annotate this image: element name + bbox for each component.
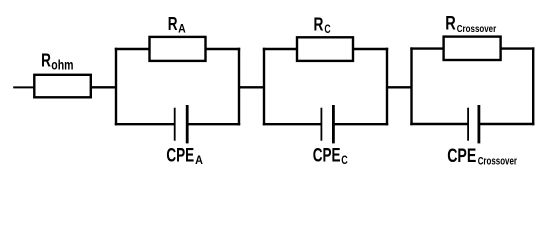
capacitor CPEA right plate [186,105,189,143]
svg-text:A: A [178,24,186,36]
wire loop1 right vertical [238,49,240,124]
svg-text:R: R [314,14,324,34]
capacitor CPECrossover right plate [478,105,481,143]
capacitor CPECrossover left plate [467,108,469,141]
svg-text:Crossover: Crossover [478,155,518,167]
wire loop1 left vertical [115,49,117,124]
wire loop3 bottom rail left [412,123,468,125]
svg-text:A: A [195,153,203,167]
wire loop2 top rail left [264,48,298,50]
wire loop1 top rail left [116,48,150,50]
svg-text:R: R [168,14,178,34]
wire loop2 top rail right [353,48,388,50]
wire loop1 bottom rail right [188,123,239,125]
svg-text:CPE: CPE [166,145,194,166]
wire loop3 right vertical [532,49,534,124]
wire loop3 top rail left [412,47,445,49]
wire loop3 bottom rail right [480,123,533,125]
svg-text:R: R [41,51,51,71]
resistor RC [297,37,353,61]
capacitor CPEC left plate [321,108,323,141]
capacitor CPEC right plate [332,105,335,143]
svg-text:Crossover: Crossover [457,23,496,35]
wire loop2 bottom rail left [264,123,321,125]
wire loop3 left vertical [410,49,412,124]
svg-text:C: C [324,24,330,36]
wire loop2 to loop3 [387,86,412,88]
wire Rohm to loop1 [91,86,116,88]
wire loop2 bottom rail right [335,123,387,125]
wire input stub [13,86,34,88]
svg-text:CPE: CPE [313,145,341,166]
resistor RA [150,37,206,61]
svg-text:R: R [445,13,456,35]
svg-text:C: C [341,153,348,167]
wire loop2 left vertical [263,49,265,124]
resistor Rohm [34,75,91,98]
wire loop1 to loop2 [239,86,264,88]
wire loop3 top rail right [500,47,533,49]
wire loop1 bottom rail left [116,123,174,125]
wire loop1 top rail right [205,48,239,50]
svg-text:ohm: ohm [51,58,73,73]
resistor RCrossover [444,37,501,60]
wire loop2 right vertical [386,49,388,124]
svg-text:CPE: CPE [447,146,476,167]
capacitor CPEA left plate [174,108,176,141]
